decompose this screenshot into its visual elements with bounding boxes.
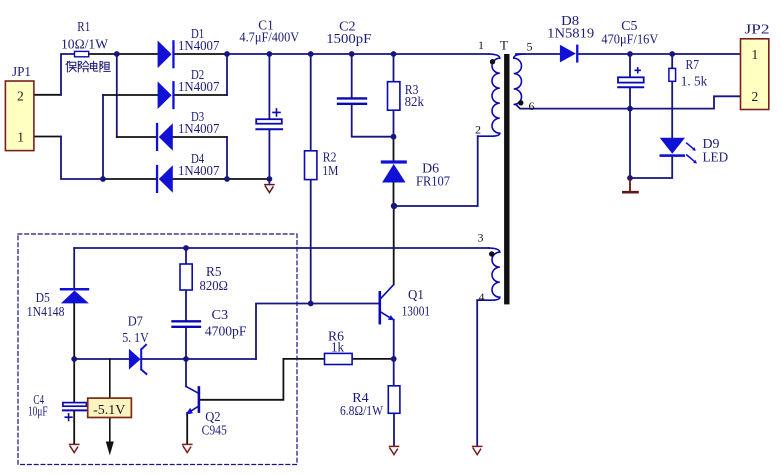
ground (under R4)	[389, 446, 398, 454]
ground (under C4)	[70, 444, 79, 452]
svg-text:6: 6	[529, 99, 535, 113]
svg-text:1N4007: 1N4007	[178, 79, 220, 94]
wire D5 column lower / C4 column	[73, 304, 75, 444]
svg-text:R7: R7	[686, 57, 700, 72]
wire zener row	[74, 358, 256, 360]
wire top rail to xfmr pin1	[227, 53, 489, 55]
wire switch node down to Q1 collector	[393, 206, 395, 284]
svg-text:1: 1	[17, 129, 24, 144]
svg-text:C5: C5	[621, 18, 637, 33]
resistor R6	[325, 353, 353, 364]
wire R7 LED column	[630, 54, 672, 178]
svg-text:2: 2	[17, 89, 24, 104]
transformer secondary winding pins 5-6	[514, 54, 525, 105]
diode D6 FR107	[381, 160, 450, 188]
svg-text:FR107: FR107	[416, 174, 450, 189]
label 保险电阻 (fuse resistor)	[66, 61, 110, 72]
transformer aux winding pins 3-4	[477, 248, 500, 300]
svg-text:1500pF: 1500pF	[326, 31, 372, 46]
wire D2 cathode up to DC+ rail	[175, 94, 227, 96]
wire switch node right to xfmr pin2	[394, 136, 478, 206]
transistor Q2 C945 (mirrored)	[186, 387, 227, 438]
power port -5.1V	[88, 359, 132, 455]
svg-text:D5: D5	[36, 290, 50, 305]
svg-text:R2: R2	[323, 149, 337, 164]
capacitor C4 electrolytic	[28, 392, 86, 421]
dashed feedback box	[18, 234, 297, 465]
transformer primary winding pins 1-2	[478, 54, 500, 136]
wire 0V rail pin6 to JP2 pin2	[516, 96, 741, 108]
wire R3 column	[393, 54, 395, 137]
wire R5 C3 column	[185, 248, 187, 359]
diode D2 1N4007	[158, 67, 220, 109]
svg-text:R1: R1	[77, 19, 90, 34]
svg-text:82k: 82k	[405, 94, 425, 109]
svg-text:5. 1V: 5. 1V	[122, 330, 149, 345]
wire Q2 base jog to R6	[199, 359, 325, 400]
wire feedback row to xfmr pin3	[74, 247, 489, 249]
svg-text:10μF: 10μF	[28, 403, 48, 418]
ground (under C1)	[265, 185, 274, 193]
wire R6 to emitter node	[352, 358, 394, 360]
resistor R2	[305, 151, 317, 180]
resistor R7	[669, 68, 676, 81]
wire xfmr pin4 to ground	[476, 300, 478, 445]
svg-text:2: 2	[475, 123, 481, 137]
capacitor C5 electrolytic	[601, 18, 658, 88]
wire D5 column upper	[73, 248, 75, 288]
wire C2 column	[352, 54, 394, 137]
zener D7 5.1V	[122, 313, 149, 374]
svg-text:1. 5k: 1. 5k	[681, 73, 708, 88]
transistor Q1 13001	[380, 285, 430, 323]
wire D4 anode to C1 ground node	[173, 178, 269, 180]
resistor R1	[75, 51, 89, 56]
svg-text:R5: R5	[206, 264, 222, 279]
wire secondary top rail	[516, 53, 741, 55]
diode D4 1N4007 (reversed)	[156, 151, 220, 193]
svg-text:T: T	[500, 38, 508, 53]
svg-text:1: 1	[752, 47, 759, 62]
wire D3 anode down to DC- row	[173, 136, 227, 138]
wire R2 column	[310, 54, 312, 304]
svg-text:1N5819: 1N5819	[547, 26, 594, 41]
svg-text:3: 3	[478, 230, 484, 244]
polarity dot pin1	[490, 59, 495, 64]
svg-text:LED: LED	[703, 149, 729, 164]
wire JP1 pin1 to bridge bottom row	[61, 137, 103, 180]
svg-text:C3: C3	[212, 307, 229, 322]
svg-text:1k: 1k	[331, 340, 344, 355]
svg-text:D7: D7	[128, 313, 143, 328]
wire JP1 pin1 stub	[34, 136, 61, 138]
resistor R4	[388, 386, 400, 414]
svg-text:JP1: JP1	[12, 64, 31, 79]
polarity dot pin3	[489, 251, 494, 256]
resistor R5	[180, 264, 192, 290]
wire Q2 collector column	[185, 359, 187, 386]
svg-text:C945: C945	[202, 423, 227, 438]
earth ground (under C5/LED)	[623, 178, 637, 192]
diode D5 1N4148	[27, 288, 89, 319]
connector JP2	[741, 39, 769, 110]
svg-text:Q1: Q1	[408, 287, 424, 302]
svg-text:820Ω: 820Ω	[200, 278, 229, 293]
diode D1 1N4007	[158, 26, 220, 68]
svg-text:1N4007: 1N4007	[178, 121, 220, 136]
svg-text:10Ω/1W: 10Ω/1W	[61, 37, 108, 52]
svg-text:470μF/16V: 470μF/16V	[601, 32, 658, 47]
diode D8 1N5819	[547, 13, 594, 62]
polarity dot pin6	[518, 100, 523, 105]
svg-text:-5.1V: -5.1V	[93, 402, 125, 417]
svg-text:1N4148: 1N4148	[27, 304, 65, 319]
svg-text:13001: 13001	[402, 304, 431, 319]
wire C1 column	[268, 54, 270, 183]
svg-text:6.8Ω/1W: 6.8Ω/1W	[340, 403, 383, 418]
svg-text:4700pF: 4700pF	[205, 324, 247, 339]
svg-text:5: 5	[527, 40, 533, 54]
LED D9	[660, 136, 729, 164]
wire JP1 pin2 stub	[34, 94, 61, 96]
wire AC1 node down to D3 cathode	[116, 54, 118, 137]
wire D6 column	[393, 137, 395, 206]
wire bottom row to D4	[103, 178, 156, 180]
capacitor C2	[338, 98, 366, 103]
ground (under Q2)	[183, 444, 192, 452]
wire D1 cathode to DC+ node	[175, 53, 227, 55]
wire R1 to D1 anode	[89, 53, 158, 55]
svg-text:1M: 1M	[322, 163, 338, 178]
svg-text:1N4007: 1N4007	[178, 163, 220, 178]
wire Q2 emitter to ground	[186, 413, 188, 444]
capacitor C1 electrolytic	[239, 17, 299, 129]
connector JP1	[5, 81, 34, 151]
resistor R3	[388, 82, 400, 111]
svg-text:1N4007: 1N4007	[178, 38, 220, 53]
wire C5 column	[629, 54, 631, 178]
svg-text:4: 4	[479, 290, 485, 304]
diode D3 1N4007 (reversed)	[156, 109, 220, 151]
svg-text:4.7μF/400V: 4.7μF/400V	[239, 30, 299, 45]
wire JP1 pin2 riser to R1	[61, 54, 75, 95]
wire Q1 emitter column and R4 column	[393, 320, 395, 445]
capacitor C3	[173, 321, 200, 327]
svg-text:2: 2	[752, 89, 759, 104]
wire D2 anode left and down to AC2	[103, 94, 157, 96]
svg-text:1: 1	[478, 38, 484, 52]
svg-text:JP2: JP2	[745, 22, 770, 37]
ground (under xfmr pin4)	[473, 446, 482, 454]
wire up-jog to Q1 base row	[256, 304, 380, 360]
transformer T core	[504, 54, 509, 304]
